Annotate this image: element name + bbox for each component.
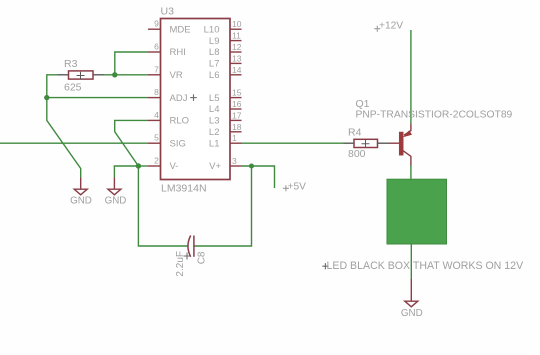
svg-text:VR: VR xyxy=(170,70,183,81)
svg-text:GND: GND xyxy=(105,195,127,206)
pin 12 L8 xyxy=(209,42,242,58)
svg-text:V+: V+ xyxy=(209,161,221,172)
wire V- net (pin 2) xyxy=(138,165,148,167)
svg-text:SIG: SIG xyxy=(170,138,186,149)
pin 5 SIG xyxy=(148,133,186,150)
wire R3 left to ADJ column xyxy=(47,75,58,98)
wire box bottom to GND3 xyxy=(410,244,412,279)
svg-text:L5: L5 xyxy=(209,93,220,104)
ground GND3 xyxy=(401,279,423,319)
node ADJ junction xyxy=(44,95,49,100)
pin 17 L3 xyxy=(209,110,242,126)
svg-text:16: 16 xyxy=(232,99,242,109)
svg-text:2: 2 xyxy=(154,156,159,166)
wire VR net (pin 7 to junction) xyxy=(104,74,148,76)
svg-text:18: 18 xyxy=(232,122,242,132)
pin 18 L2 xyxy=(209,122,242,138)
resistor R3 xyxy=(58,58,105,94)
svg-text:13: 13 xyxy=(232,53,242,63)
svg-text:Q1: Q1 xyxy=(356,98,370,110)
svg-text:L3: L3 xyxy=(209,116,220,127)
svg-text:17: 17 xyxy=(232,110,242,120)
wire RLO net (pin 4 diagonal to V- junction) xyxy=(115,120,148,166)
svg-text:L10: L10 xyxy=(204,24,220,35)
svg-text:5: 5 xyxy=(154,133,159,143)
svg-text:7: 7 xyxy=(154,64,159,74)
svg-text:1: 1 xyxy=(232,133,237,143)
pin 14 L6 xyxy=(209,65,242,81)
wire SIG net to left edge xyxy=(0,142,148,144)
svg-text:6: 6 xyxy=(154,42,159,52)
svg-text:8: 8 xyxy=(154,87,159,97)
svg-text:L6: L6 xyxy=(209,70,220,81)
svg-text:L2: L2 xyxy=(209,127,220,138)
svg-text:LM3914N: LM3914N xyxy=(161,183,207,195)
svg-text:L8: L8 xyxy=(209,47,220,58)
wire ADJ net (pin 8) xyxy=(47,97,148,99)
wire +12V down to Q1 emitter xyxy=(410,30,412,124)
svg-text:15: 15 xyxy=(232,88,242,98)
wire C8 right up to V+ pin xyxy=(194,166,252,246)
supply +12V xyxy=(374,21,403,32)
LED black box (green rectangle) xyxy=(387,179,447,244)
wire RHI net (pin 6 to junction column) xyxy=(115,52,148,75)
label LED BLACK BOX xyxy=(322,260,524,272)
wire V+ to +5V supply xyxy=(252,166,275,188)
pin 16 L4 xyxy=(209,99,242,115)
pin 15 L5 xyxy=(209,88,242,104)
svg-text:RLO: RLO xyxy=(170,116,190,127)
svg-text:4: 4 xyxy=(154,110,159,120)
wire ADJ column down to GND1 xyxy=(47,98,81,178)
svg-text:L1: L1 xyxy=(209,138,220,149)
svg-text:U3: U3 xyxy=(161,6,175,18)
pin 10 L10 xyxy=(204,19,242,35)
svg-text:LED BLACK BOX THAT WORKS ON 12: LED BLACK BOX THAT WORKS ON 12V xyxy=(327,260,525,272)
svg-text:800: 800 xyxy=(348,148,366,160)
svg-text:R3: R3 xyxy=(64,58,78,70)
ground GND1 xyxy=(70,178,92,207)
svg-text:GND: GND xyxy=(70,195,92,206)
capacitor C8 xyxy=(175,236,208,277)
pin 2 V- xyxy=(148,156,178,173)
svg-text:ADJ: ADJ xyxy=(170,93,188,104)
svg-text:PNP-TRANSISTIOR-2COLSOT89: PNP-TRANSISTIOR-2COLSOT89 xyxy=(356,109,513,120)
node VR/RHI junction xyxy=(112,72,117,77)
transistor Q1 PNP xyxy=(356,98,513,166)
svg-text:L4: L4 xyxy=(209,104,220,115)
node V+ junction xyxy=(249,164,254,169)
pin 8 ADJ xyxy=(148,87,188,104)
IC U3 LM3914N body xyxy=(161,6,231,195)
svg-text:+12V: +12V xyxy=(379,21,403,32)
pin 4 RLO xyxy=(148,110,189,127)
node V- junction xyxy=(136,163,141,168)
svg-text:R4: R4 xyxy=(348,126,362,138)
svg-text:2.2uF: 2.2uF xyxy=(175,251,186,277)
U3 origin cross xyxy=(190,94,197,101)
pin 9 MDE xyxy=(148,19,191,36)
pin 13 L7 xyxy=(209,53,242,69)
wire V- junction to GND2 xyxy=(114,166,138,178)
svg-text:GND: GND xyxy=(401,308,423,319)
wire V- junction down to C8 left xyxy=(138,166,188,246)
pin 7 VR xyxy=(148,64,183,81)
svg-text:+5V: +5V xyxy=(288,181,307,192)
wire L1 net (pin 1 to R4) xyxy=(242,142,344,144)
svg-text:12: 12 xyxy=(232,42,242,52)
pin 1 L1 xyxy=(209,133,242,149)
svg-text:C8: C8 xyxy=(197,251,208,264)
supply +5V xyxy=(283,181,306,192)
svg-text:10: 10 xyxy=(232,19,242,29)
pin 3 V+ xyxy=(209,156,241,172)
svg-text:625: 625 xyxy=(64,82,82,94)
svg-text:V-: V- xyxy=(170,161,179,172)
pin 11 L9 xyxy=(209,31,242,47)
ground GND2 xyxy=(105,178,127,207)
svg-text:9: 9 xyxy=(154,19,159,29)
wire Q1 collector to box xyxy=(410,165,412,180)
svg-text:L7: L7 xyxy=(209,59,220,70)
svg-text:3: 3 xyxy=(232,156,237,166)
svg-text:14: 14 xyxy=(232,65,242,75)
pin 6 RHI xyxy=(148,42,186,59)
svg-text:RHI: RHI xyxy=(170,47,186,58)
svg-text:L9: L9 xyxy=(209,36,220,47)
svg-text:11: 11 xyxy=(232,31,241,41)
svg-text:MDE: MDE xyxy=(170,24,191,35)
resistor R4 xyxy=(344,126,390,160)
